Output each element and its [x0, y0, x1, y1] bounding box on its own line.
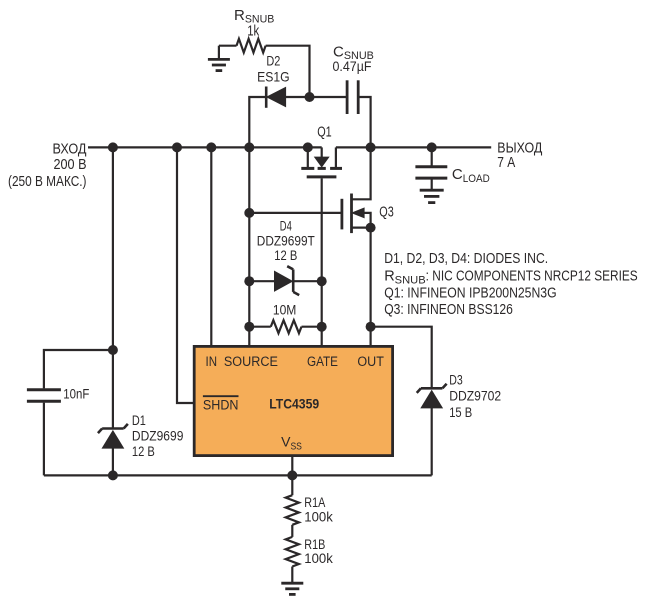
wire: RSNUB right lead down to D2/CSNUB node — [266, 46, 310, 97]
node: input rail tap at D2/SOURCE column — [244, 142, 254, 152]
svg-text:CLOAD: CLOAD — [452, 166, 490, 185]
node: VSS / R1A junction — [287, 470, 297, 480]
wire: input rail from ВХОД to Q1 source/body stub — [88, 146, 322, 148]
wire: Q3 drain lead up to rail — [352, 147, 371, 199]
capacitor CLOAD bottom plate — [415, 177, 447, 180]
svg-text:D4: D4 — [280, 218, 292, 233]
wire: 10nF branch from left column — [44, 350, 113, 388]
node: input rail tap for left branch — [108, 142, 118, 152]
svg-text:Q1: Q1 — [317, 125, 332, 141]
wire: RSNUB left lead to ground — [219, 45, 237, 47]
capacitor CLOAD top plate — [415, 165, 447, 168]
svg-text:DDZ9702: DDZ9702 — [449, 389, 501, 404]
transistor Q3 channel bar — [350, 194, 353, 234]
wire: D4 right wire to GATE column — [294, 280, 321, 282]
resistor 10M zigzag — [271, 320, 302, 333]
svg-text:D1, D2, D3, D4: DIODES INC.: D1, D2, D3, D4: DIODES INC. — [384, 251, 548, 267]
svg-text:SHDN: SHDN — [203, 397, 239, 412]
transistor Q1 drain lead and contact bar — [335, 147, 337, 167]
node: Q1 source junction — [303, 142, 313, 152]
capacitor 10nF plates — [27, 388, 61, 391]
svg-text:Q1: INFINEON IPB200N25N3G: Q1: INFINEON IPB200N25N3G — [384, 286, 556, 302]
node: 10nF branch junction — [108, 345, 118, 355]
node: D1 anode on bottom rail — [108, 470, 118, 480]
wire: bottom rail — [44, 474, 432, 476]
svg-text:12 В: 12 В — [274, 248, 297, 263]
svg-text:RSNUB: NIC COMPONENTS NRCP12 S: RSNUB: NIC COMPONENTS NRCP12 SERIES — [384, 269, 637, 287]
transistor Q1 source lead and contact bar — [307, 147, 309, 167]
svg-text:10M: 10M — [273, 301, 297, 317]
wire: CSNUB right lead down to rail at Q3 drain node — [358, 97, 370, 147]
transistor Q3 body arrow (pointing left) — [352, 208, 364, 217]
wire: SHDN branch down and right into IC — [177, 147, 194, 403]
zener D4 cathode bar with ticks — [292, 269, 295, 292]
svg-text:ES1G: ES1G — [257, 69, 290, 85]
wire: Q1 gate down to GATE pin (crosses Q3 gate wire) — [321, 178, 323, 346]
node: RSNUB/D2/CSNUB junction — [305, 92, 315, 102]
wire: Q3 source lead — [352, 227, 371, 229]
wire: D3 anode down to bottom rail — [431, 408, 433, 476]
diode D2 cathode bar — [265, 87, 268, 108]
wire: CLOAD top lead — [431, 147, 433, 165]
svg-text:7 А: 7 А — [497, 154, 515, 171]
node: D4 left junction — [244, 276, 254, 286]
svg-text:LTC4359: LTC4359 — [269, 395, 319, 411]
transistor Q1 gate electrode bar — [307, 175, 337, 178]
svg-text:Q3: INFINEON BSS126: Q3: INFINEON BSS126 — [384, 302, 513, 318]
node: 10M left junction — [244, 322, 254, 332]
svg-text:10nF: 10nF — [63, 387, 89, 402]
svg-text:0.47µF: 0.47µF — [333, 58, 372, 74]
zener D1 bar and triangle — [102, 427, 124, 430]
node: output rail tap for CLOAD — [427, 142, 437, 152]
wire: Q3 source down to OUT pin — [370, 228, 372, 347]
svg-text:100k: 100k — [304, 509, 333, 525]
svg-text:IN: IN — [206, 354, 218, 369]
svg-text:(250 В МАКС.): (250 В МАКС.) — [8, 173, 87, 190]
node: OUT/D3 junction — [366, 322, 376, 332]
wire: D2 anode to snubber node — [285, 96, 347, 98]
IC U1 LTC4359 body — [194, 346, 392, 455]
wire: OUT column to D3 branch — [371, 327, 432, 389]
resistor R1B zigzag — [286, 537, 299, 567]
wire: VSS pin to bottom rail — [291, 456, 293, 476]
wire: 10M left lead — [249, 326, 270, 328]
svg-text:Q3: Q3 — [379, 205, 394, 221]
node: input rail tap for SHDN branch — [172, 142, 182, 152]
diode D2 triangle (pointing left) — [268, 88, 286, 106]
wire: SOURCE column down into IC — [248, 147, 250, 346]
wire: input rail Q1 drain to ВЫХОД — [336, 146, 491, 148]
resistor RSNUB 1k zigzag — [237, 39, 266, 53]
svg-text:SOURCE: SOURCE — [224, 354, 278, 369]
transistor Q3 gate bar — [340, 199, 343, 230]
ground symbol at R1B — [291, 567, 293, 583]
wire: bottom rail to R1A — [291, 475, 293, 495]
svg-text:OUT: OUT — [357, 354, 384, 369]
node: Q3 gate junction on SOURCE column — [244, 208, 254, 218]
capacitor CSNUB plates — [346, 80, 349, 114]
wire: 10nF bottom lead down to bottom rail — [43, 403, 45, 476]
svg-text:DDZ9699T: DDZ9699T — [257, 234, 315, 249]
svg-text:ВХОД: ВХОД — [53, 140, 87, 157]
wire: D2 cathode lead, down to input rail — [249, 97, 266, 147]
wire: R1A to R1B — [291, 525, 293, 537]
svg-text:D1: D1 — [132, 413, 146, 428]
zener D3 bar and triangle — [421, 387, 443, 390]
svg-text:D3: D3 — [449, 372, 463, 387]
node: D4 right junction — [317, 276, 327, 286]
svg-text:12 В: 12 В — [132, 444, 155, 459]
zener D4 triangle (pointing right) — [275, 272, 292, 291]
transistor Q1 middle contact bar — [318, 167, 326, 170]
svg-text:15 В: 15 В — [449, 405, 472, 420]
svg-text:DDZ9699: DDZ9699 — [132, 428, 184, 443]
svg-text:1k: 1k — [247, 23, 260, 39]
node: Q1 drain / CSNUB / Q3 drain junction — [366, 142, 376, 152]
wire: IN pin branch down into IC — [210, 147, 212, 346]
wire: vertical from input rail to bottom rail (left branch with D1) — [112, 147, 114, 428]
resistor R1A zigzag — [286, 495, 299, 525]
ground symbol at CLOAD — [431, 180, 433, 190]
svg-text:100k: 100k — [304, 550, 333, 566]
node: 10M right junction — [317, 322, 327, 332]
node: Q3 source/body junction — [366, 223, 376, 233]
wire: Q3 gate wire to SOURCE column — [249, 212, 342, 214]
node: input rail tap for IN pin — [206, 142, 216, 152]
svg-text:GATE: GATE — [307, 354, 338, 369]
wire: 10M right lead — [302, 326, 322, 328]
svg-text:200 В: 200 В — [54, 156, 87, 173]
transistor Q1 body-diode stub and triangle — [321, 147, 323, 157]
ground symbol at RSNUB — [218, 46, 220, 59]
svg-text:D2: D2 — [266, 52, 280, 68]
zener D4 left wire — [249, 280, 274, 282]
